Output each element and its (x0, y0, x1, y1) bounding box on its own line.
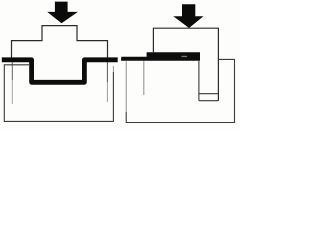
left press arrow (force) (47, 2, 78, 24)
right ejector block bottom (199, 100, 219, 102)
right punch leg bottom face (199, 93, 219, 95)
right press arrow (force) (173, 4, 203, 28)
right inner die line (faded) (143, 61, 145, 95)
right sheet with clamp pad (thick black L-shape) (121, 52, 200, 61)
left die outline (4, 65, 113, 122)
scan artifact light dash in black bar (182, 56, 188, 57)
right die outline (126, 59, 234, 122)
left punch outline (12, 26, 108, 58)
left punch side line continuing below sheet (right, faded) (106, 62, 108, 82)
left formed sheet (thick hat channel) (2, 60, 118, 83)
left punch side line continuing below sheet (left, faded) (11, 62, 13, 80)
right bent sheet edge / die wall vertical (198, 61, 200, 101)
right punch outline (153, 28, 218, 101)
